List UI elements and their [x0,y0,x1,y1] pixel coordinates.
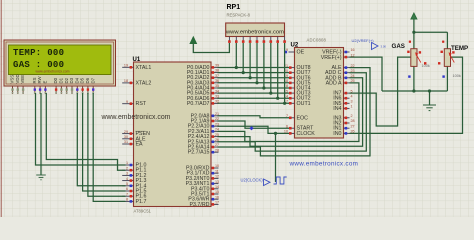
svg-text:RST: RST [136,101,147,107]
ADC left pin numbers [284,48,288,133]
svg-text:11: 11 [215,169,219,173]
svg-text:U2(CLOCK): U2(CLOCK) [241,178,264,183]
wire RP1 pin1 common to VCC [193,43,229,53]
svg-text:16: 16 [215,195,219,199]
wire P0.5-OUT3 [218,92,290,94]
wire P2.2-CLOCK [218,126,290,133]
svg-text:TEMP: TEMP [451,45,468,52]
wires: MCU P2 to ADC control pins [218,68,371,182]
wire P0.3-OUT5 [218,82,290,84]
wire P2.1-START [218,121,290,128]
svg-text:18: 18 [124,79,128,83]
svg-text:P0.7/AD7: P0.7/AD7 [187,101,210,107]
wire E to P1.1 [46,93,125,170]
svg-text:www.embetronicx.com: www.embetronicx.com [289,160,359,167]
svg-text:D2: D2 [64,77,69,83]
wire P2.5-ADDC [218,73,367,151]
svg-text:VREF(+): VREF(+) [321,55,342,61]
LCD pin terminal markers [11,88,94,90]
svg-text:D3: D3 [69,77,74,83]
ADC left pin squares [289,66,292,134]
LCD pin name labels VSS VDD VEE RS RW E D0-D7 [10,74,96,83]
junction dots on P0 bus [235,66,287,105]
wire P0.1-OUT7 [218,72,290,74]
svg-text:P3.7/RD: P3.7/RD [189,202,209,208]
MCU U1 AT89C51 body [134,62,212,207]
wire GAS pot top [413,32,415,49]
svg-text:28: 28 [351,119,355,123]
LCD pin stubs 1-14 [13,86,94,94]
potentiometer RV1 GAS body [411,49,421,67]
svg-text:ADC0808: ADC0808 [307,38,327,43]
wire GAS pot bottom [413,66,415,91]
svg-text:GAS: GAS [392,43,405,50]
svg-text:13: 13 [215,180,219,184]
svg-text:9: 9 [286,48,288,52]
svg-text:4: 4 [351,94,353,98]
RV1 terminal markers [419,51,421,53]
svg-text:VDD: VDD [15,74,20,83]
RV2 terminal markers [452,51,454,53]
svg-text:www.embetronicx.com: www.embetronicx.com [225,30,284,36]
RP1 pin stubs [229,37,284,41]
svg-text:8: 8 [126,198,128,202]
wire top power rail [414,31,448,33]
wires: LCD to MCU [36,93,126,201]
LCD module LCD1 bezel [4,40,116,86]
wire D4 to P1.4 [77,93,125,186]
svg-text:31: 31 [124,140,128,144]
power symbol VCC pots [411,13,417,19]
svg-text:28: 28 [215,148,219,152]
node marker on START wire [249,126,253,130]
svg-text:RP1: RP1 [227,4,241,11]
svg-text:IN4: IN4 [333,106,341,112]
power symbol VCC for RP1 common [190,37,197,44]
svg-text:2: 2 [351,114,353,118]
svg-text:30: 30 [124,135,128,139]
RP1 pin squares [228,40,286,43]
svg-text:3.00: 3.00 [381,44,387,48]
svg-text:12: 12 [215,175,219,179]
svg-text:XTAL2: XTAL2 [136,80,152,86]
svg-text:IN0: IN0 [333,131,341,137]
svg-text:TEMP: 000: TEMP: 000 [13,48,64,58]
svg-text:www.embetronicx.com: www.embetronicx.com [36,70,70,74]
wire P0.7-OUT1 [218,102,290,104]
wire RP1 pin7 [270,43,272,93]
svg-text:XTAL1: XTAL1 [136,65,152,71]
svg-text:AT89C51: AT89C51 [134,209,152,214]
wire pot bottom rail to ground [382,90,447,92]
MCU PSEN EA overlines [136,130,146,132]
svg-text:RW: RW [37,75,42,83]
svg-text:EOC: EOC [297,115,309,121]
ADC right pin stubs [344,52,350,133]
MCU right pin numbers [215,64,219,205]
svg-text:100k: 100k [453,74,461,78]
wire RP1 pin8 [277,43,279,98]
wire D7 to P1.7 [93,93,125,201]
junction dot CLOCK [274,132,277,135]
MCU left pin numbers [124,64,128,202]
wire RP1 pin3 [242,43,244,73]
svg-text:D7: D7 [90,77,95,83]
svg-text:VSS: VSS [10,75,15,84]
ADC right pin squares [345,51,348,135]
wire RP1 pin6 [263,43,265,88]
junction dots pot rail [412,31,431,93]
svg-text:15: 15 [215,190,219,194]
svg-text:RESPACK-8: RESPACK-8 [227,13,251,18]
MCU left pin stubs and squares [122,67,133,201]
svg-text:OUT1: OUT1 [297,101,311,107]
svg-text:3: 3 [351,100,353,104]
wire RP1 pin2 [235,43,237,68]
svg-text:VEE: VEE [20,75,25,84]
svg-text:14: 14 [215,185,219,189]
svg-text:D4: D4 [74,77,79,83]
svg-text:D1: D1 [59,77,64,83]
wire TEMP wiper to IN0 [350,57,463,133]
wire P0.0-OUT8 [218,67,290,69]
wires: MCU P0 bus to ADC OUT pins [193,43,289,103]
ADC left pin names [297,50,316,137]
resistor pack RP1 body [226,23,285,37]
potentiometer RV2 TEMP body [444,49,454,67]
svg-text:EA: EA [136,142,144,148]
wire P0.4-OUT4 [218,87,290,89]
ground symbol right [423,105,436,111]
svg-text:P2.7/A15: P2.7/A15 [188,150,210,156]
MCU right pin stubs [211,67,219,204]
svg-text:29: 29 [124,130,128,134]
wire TEMP pot top [446,32,448,49]
LCD screen [9,45,112,75]
wire RW to ground [40,93,42,175]
svg-text:www.embetronicx.com: www.embetronicx.com [101,114,171,121]
wire TEMP pot bottom [446,66,448,91]
wire ground drop [429,91,431,105]
svg-text:100k: 100k [422,64,430,68]
svg-text:3: 3 [126,172,128,176]
wire RS to P1.0 [36,93,126,165]
svg-text:6: 6 [126,187,128,191]
VREF+ probe symbol [372,43,379,50]
svg-text:27: 27 [351,124,355,128]
svg-text:D5: D5 [80,77,85,83]
svg-text:GAS : 000: GAS : 000 [13,60,64,70]
svg-text:19: 19 [124,64,128,68]
ADC right pin numbers [351,48,355,133]
wire P0.2-OUT6 [218,77,290,79]
wire RP1 pin9 [284,43,286,103]
svg-text:RS: RS [32,77,37,83]
wire clock generator drop [275,133,277,182]
ADC right pin names [321,50,342,137]
ADC U2 body [295,48,344,139]
svg-text:2: 2 [126,166,128,170]
LCD pin number marks [12,92,95,94]
svg-text:D0: D0 [53,77,58,83]
ADC OE terminal blue marker [285,51,288,54]
wire D5 to P1.5 [83,93,126,191]
wire P2.3-ADDA [218,83,359,142]
wire D6 to P1.6 [88,93,126,196]
svg-text:1: 1 [351,105,353,109]
svg-text:ADD A: ADD A [326,80,342,86]
wire VREF+ [350,57,383,91]
svg-text:10: 10 [215,164,219,168]
svg-text:16: 16 [351,48,355,52]
svg-text:CLOCK: CLOCK [297,131,316,137]
svg-text:4: 4 [126,177,128,181]
wire P0.6-OUT2 [218,97,290,99]
wire P2.6-ALE [218,68,371,156]
ground symbol below LCD RW [36,175,46,180]
svg-text:9: 9 [126,100,128,104]
svg-text:7: 7 [126,192,128,196]
svg-text:P1.7: P1.7 [136,199,147,205]
svg-text:1: 1 [126,161,128,165]
wire RP1 pin4 [249,43,251,78]
svg-text:OE: OE [297,50,305,56]
svg-text:D6: D6 [85,77,90,83]
wire GAS wiper to IN1 [350,57,411,126]
MCU right pin names [186,65,210,208]
wire power stem [413,19,415,32]
svg-text:17: 17 [215,201,219,205]
wires: VREF and potentiometer network [350,19,463,133]
MCU left pin names [136,65,152,205]
ADC left pin stubs [289,52,295,133]
wire P2.0-EOC [218,116,290,118]
svg-text:U2(VREF(+): U2(VREF(+) [352,38,375,43]
svg-text:E: E [43,81,48,84]
svg-text:5: 5 [126,182,128,186]
sheet border [0,0,2,217]
wire RP1 pin5 [256,43,258,83]
clock generator probe symbol [264,177,287,186]
MCU right pin squares [212,66,215,206]
wire P2.4-ADDB [218,78,363,147]
